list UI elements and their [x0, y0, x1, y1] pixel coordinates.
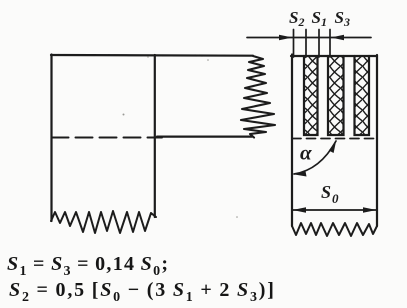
- svg-text:S1 = S3 = 0,14 S0;: S1 = S3 = 0,14 S0;: [7, 253, 169, 279]
- dimension arrow pointing left at extension line 4: [331, 35, 344, 40]
- svg-text:S3: S3: [335, 8, 350, 29]
- strip 2 (hatched, width S1): [328, 56, 344, 135]
- right view: bottom break zigzag: [292, 223, 377, 236]
- formula line 2: S2 = 0,5 [S0 - (3 S1 + 2 S3)]: [9, 279, 276, 305]
- dimension arrow pointing right at extension line 1: [279, 35, 293, 40]
- dimension line for S2 S1 S3: [247, 37, 371, 39]
- strip 1 (hatched, width S1): [304, 56, 318, 135]
- svg-text:S0: S0: [321, 182, 339, 206]
- svg-text:S2: S2: [289, 8, 304, 29]
- angle arc alpha with arrowheads: [294, 141, 336, 174]
- strip 3 (hatched, width S1): [355, 56, 370, 135]
- extension line 4: [329, 30, 331, 58]
- left view: dashed centerline: [52, 137, 163, 139]
- left view: middle vertical line: [154, 55, 156, 217]
- left view: left edge: [50, 55, 52, 222]
- extension line 1: [293, 30, 295, 58]
- right view: top edge: [291, 55, 377, 57]
- extension line 2: [305, 30, 307, 58]
- svg-text:S2 = 0,5 [S0 − (3 S1 + 2 S3)]: S2 = 0,5 [S0 − (3 S1 + 2 S3)]: [9, 279, 276, 305]
- right view: outline left edge: [291, 55, 293, 227]
- left view: bottom break zigzag: [51, 211, 156, 233]
- left view: bottom edge of right strip: [157, 136, 252, 138]
- right view: outline right edge: [376, 55, 378, 226]
- svg-text:S1: S1: [312, 8, 327, 29]
- svg-text:α: α: [300, 141, 312, 165]
- right view: dashed line at strip bottoms: [292, 138, 377, 140]
- formula line 1: S1 = S3 = 0,14 S0;: [7, 253, 169, 279]
- dimension line S0: [293, 209, 377, 211]
- left view: right break zigzag: [241, 56, 275, 138]
- left view: top edge: [51, 54, 253, 57]
- extension line 3: [318, 30, 320, 58]
